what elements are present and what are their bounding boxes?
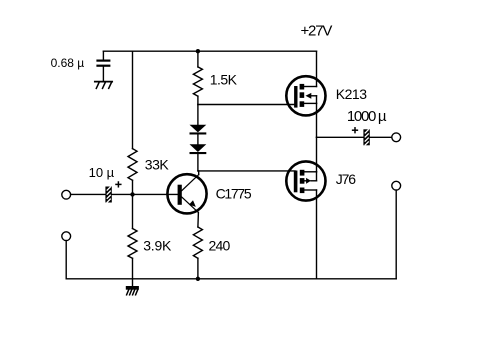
wire 1.5K to node A [197,96,199,104]
svg-text:C1775: C1775 [216,185,252,201]
K213 body arrow [306,93,312,99]
wire bottom rail [66,278,396,280]
wire output node to 1000u [317,136,364,138]
J76 body circle [286,161,325,200]
MOSFET U1 K213 [286,51,325,137]
wire 1000u to output terminal [370,136,392,138]
wire D1 to D2 [197,135,199,145]
svg-text:J76: J76 [336,171,357,187]
Q1 collector diagonal [182,175,199,191]
J76 drain wire from output node [316,137,318,172]
J76 drain internal [304,171,316,173]
input terminal [62,190,71,199]
svg-text:1.5K: 1.5K [210,72,238,88]
wire input to 10u cap [71,193,106,195]
capacitor 1000u electrolytic [363,129,369,145]
J76 body tie [316,172,318,181]
wire emitter to 240 [197,213,200,228]
svg-text:3.9K: 3.9K [143,238,172,254]
wire left terminal down to bottom rail [65,241,67,279]
J76 channel segment top [300,170,305,176]
transistor Q1 C1775 [167,174,206,213]
K213 channel segment top [300,84,305,90]
wire D2 to node B [197,154,199,171]
wire node A down to diode D1 [197,105,199,125]
K213 source internal [304,102,316,104]
Q1 emitter arrowhead [189,200,196,207]
capacitor C 0.68u plates [96,60,110,62]
svg-text:240: 240 [209,238,231,254]
svg-text:K213: K213 [336,86,367,102]
svg-text:+27V: +27V [301,23,333,40]
ground (power ground, bottom) [126,286,139,295]
resistor 1.5K zigzag [193,67,202,96]
K213 gate bar [294,86,297,108]
wire 33K bottom to base node and down to 3.9K [132,180,134,228]
terminal input ground (left bottom) [62,232,71,241]
resistor 33K zigzag [128,149,137,181]
wire right terminal down to bottom rail [395,190,397,279]
Q1 base bar [178,185,182,205]
J76 gate bar [294,171,298,193]
plus polarity 1000u [353,128,358,133]
K213 body tie [316,96,318,104]
plus polarity 10u [116,182,121,187]
svg-text:10 µ: 10 µ [89,165,115,180]
K213 body circle [286,76,325,115]
output ground terminal (right) [392,181,401,190]
output terminal [392,133,401,142]
svg-text:33K: 33K [145,156,170,172]
K213 source wire to output node [316,103,318,137]
capacitor C 0.68u stem bottom [102,67,104,81]
wire node A to K213 gate [198,104,295,106]
K213 drain internal [304,86,316,88]
wire node B down to collector [198,171,200,175]
Q1 body circle [167,174,206,213]
diode D2 [190,144,207,154]
wire top supply rail [103,50,316,52]
capacitor 10u electrolytic [105,187,111,203]
junction base node [130,192,134,196]
wire left column from top rail to 33K [132,51,134,148]
ground (signal ground, top-left) [95,82,112,89]
K213 channel segment middle [300,92,305,98]
wire 240 to bottom rail [197,258,199,279]
capacitor C 0.68u stem top [102,51,104,59]
wire 3.9K bottom through rail to ground [132,258,134,286]
J76 body arrow [304,180,306,182]
J76 source internal [304,189,316,191]
junction top rail / 1.5K [196,49,200,53]
MOSFET U2 J76 [286,137,325,278]
J76 channel segment bottom [300,188,305,194]
K213 drain wire from rail [316,51,318,86]
junction 240 / bottom rail [196,277,200,281]
svg-text:1000 µ: 1000 µ [347,108,387,125]
resistor 240 zigzag [193,227,202,258]
J76 source wire to bottom rail [316,190,318,279]
wire node B to J76 gate [198,170,295,172]
diode D1 [190,125,207,135]
resistor 3.9K zigzag [128,229,137,259]
J76 channel segment middle [300,178,305,184]
K213 channel segment bottom [300,101,305,107]
Q1 emitter diagonal [182,197,198,212]
wire 10u cap to base [112,193,178,195]
svg-text:0.68 µ: 0.68 µ [51,56,85,70]
wire top rail to 1.5K [197,51,199,67]
